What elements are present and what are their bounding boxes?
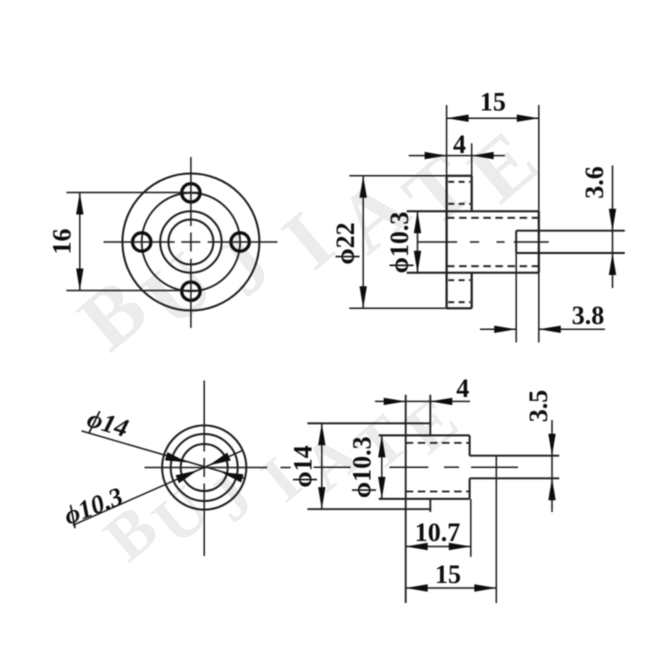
dimphi103b arrow down (378, 477, 385, 499)
dim4t arrow right (472, 152, 494, 159)
dim15b arrow right (474, 584, 496, 591)
dim4t dimension line (409, 155, 505, 157)
view1 hole top (182, 184, 200, 202)
view1 hole right (231, 233, 249, 251)
dim15t arrow right (517, 115, 539, 122)
leader phi14 arrow near (165, 452, 187, 462)
view3 bore circle (181, 444, 228, 491)
svg-text:ϕ22: ϕ22 (331, 222, 360, 264)
view2 centre line (418, 241, 457, 243)
view4 centre line (314, 466, 351, 468)
dim38 extension right (538, 273, 540, 343)
dimphi22 arrow down (360, 286, 367, 308)
dimphi103t arrow down (414, 251, 421, 273)
view3 outer circle phi14 (162, 425, 246, 509)
dim36 dimension line (612, 166, 614, 289)
view4 body top edge with phi10.3 ext (379, 434, 470, 436)
dimphi103t arrow up (414, 211, 421, 233)
svg-text:3.6: 3.6 (580, 166, 609, 199)
view4 body right step edge (469, 435, 471, 455)
dim4b arrow left (384, 398, 406, 405)
dimphi14b dimension line (321, 423, 323, 509)
dim4t extension right (471, 143, 473, 176)
dim15b arrow left (406, 584, 428, 591)
view3 vertical centre line (203, 381, 205, 452)
view2 screw stub (516, 230, 625, 232)
svg-text:10.7: 10.7 (415, 518, 461, 547)
view4 hidden thread bore (406, 442, 470, 444)
dimphi22 dimension line (362, 176, 364, 308)
view2 body right edge (538, 211, 540, 272)
leader phi14 line (82, 431, 245, 479)
dim16 extension line top (66, 192, 200, 194)
dim16 dimension line (79, 193, 81, 291)
view1 bolt circle (142, 193, 240, 291)
view4 collar right edge (429, 395, 431, 436)
view1 flange outer circle phi22 (122, 174, 259, 311)
view3 horizontal centre line (145, 467, 268, 469)
dim35 arrow down (548, 434, 555, 456)
dim38 arrow left (539, 326, 561, 333)
view1 thread bore circle (168, 220, 213, 265)
dim15t dimension line (447, 117, 539, 119)
view2 hidden thread bore (447, 217, 539, 219)
dim36 arrow up (609, 253, 616, 275)
dim36 arrow down (609, 209, 616, 231)
svg-text:3.5: 3.5 (524, 390, 553, 423)
dim38 arrow right (494, 326, 516, 333)
svg-text:ϕ10.3: ϕ10.3 (385, 212, 414, 274)
dim16 arrow up (76, 193, 83, 215)
view4 body bottom edge with phi10.3 ext (379, 498, 470, 500)
svg-text:4: 4 (456, 374, 469, 403)
view1 body circle phi10.3 (160, 211, 221, 272)
dim107 extension right (470, 499, 472, 557)
view1 hole bottom (182, 282, 200, 300)
dim4b arrow right (430, 398, 452, 405)
dim107 arrow right (449, 543, 471, 550)
leader phi103 arrow far (209, 453, 231, 466)
dim15b dimension line (406, 587, 497, 589)
dim38 extension left (515, 253, 517, 343)
dim16 arrow down (76, 269, 83, 291)
dim38 dimension line left (480, 328, 516, 330)
leader phi14 arrow far (221, 472, 243, 482)
dim15t extension right (538, 105, 540, 211)
view4 collar top edge with phi14 ext (307, 422, 430, 424)
view4 stub right edge ext line (495, 456, 497, 603)
dim35 arrow up (548, 478, 555, 500)
dim4t arrow left (425, 152, 447, 159)
dim16 extension line bottom (66, 290, 200, 292)
view2 body bottom edge with phi10.3 ext (407, 272, 539, 274)
dimphi22 extension bottom (349, 307, 446, 309)
view4 screw stub (470, 455, 560, 457)
view1 hole left (133, 233, 151, 251)
dim38 dimension line right (539, 328, 605, 330)
dim35 dimension line (551, 420, 553, 512)
svg-text:15: 15 (435, 560, 461, 589)
dimphi14b arrow up (318, 423, 325, 445)
view4 collar left edge long line (405, 395, 407, 603)
dimphi103b arrow up (378, 435, 385, 457)
leader phi103 line (73, 450, 243, 525)
view4 collar bottom edge with phi14 ext (307, 508, 430, 510)
dimphi14b arrow down (318, 487, 325, 509)
dim107 dimension line (406, 546, 471, 548)
svg-text:3.8: 3.8 (572, 301, 605, 330)
view3 middle circle phi10.3 (171, 434, 238, 501)
svg-text:ϕ10.3: ϕ10.3 (348, 436, 377, 498)
dim15t arrow left (447, 115, 469, 122)
svg-text:15: 15 (480, 88, 506, 117)
svg-text:4: 4 (453, 130, 466, 159)
view2 body top edge with phi10.3 ext (407, 210, 539, 212)
dimphi22 arrow up (360, 176, 367, 198)
dim4b dimension line (375, 400, 470, 402)
dim107 arrow left (406, 543, 428, 550)
view2 flange outline (446, 176, 448, 308)
watermark BUJIATE lower (91, 383, 472, 575)
svg-text:ϕ14: ϕ14 (289, 445, 318, 487)
dimphi103t dimension line (417, 211, 419, 272)
watermark BUJIATE upper (62, 113, 555, 368)
svg-text:16: 16 (48, 229, 77, 255)
view1 horizontal centre line (104, 241, 175, 243)
dim15t extension left (446, 105, 448, 176)
dimphi22 extension top (349, 175, 446, 177)
view2 hidden bolt hole top (448, 181, 470, 183)
view1 vertical centre line (190, 157, 192, 226)
dimphi103b dimension line (381, 435, 383, 499)
leader phi103 arrow near (176, 470, 198, 483)
view2 hidden bolt hole bottom (448, 279, 470, 281)
